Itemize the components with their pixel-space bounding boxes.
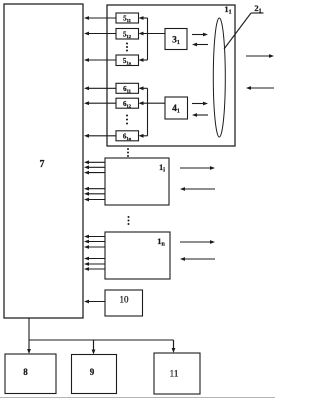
svg-text:10: 10 <box>120 295 130 305</box>
svg-text:7: 7 <box>40 159 45 170</box>
svg-text:8: 8 <box>23 367 28 377</box>
svg-text:9: 9 <box>90 367 95 377</box>
svg-text:11: 11 <box>170 369 179 379</box>
